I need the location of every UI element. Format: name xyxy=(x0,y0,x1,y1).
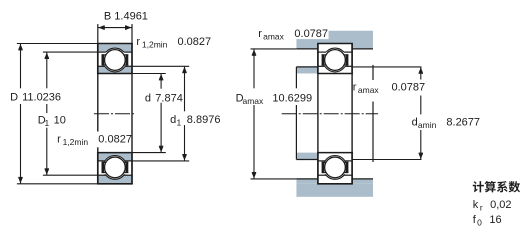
cage bracket l (right view bottom) xyxy=(322,162,325,173)
svg-text:B 1.4961: B 1.4961 xyxy=(104,10,148,22)
dimension D1 line xyxy=(46,52,48,88)
cage bracket l (right view top) xyxy=(322,54,325,65)
shoulder lines (right view top) xyxy=(318,65,325,67)
svg-text:1: 1 xyxy=(45,118,50,128)
svg-text:D: D xyxy=(10,92,18,104)
heading: calculation factors (Chinese) xyxy=(473,181,484,192)
white box behind 0.0787 top label xyxy=(292,28,329,39)
housing shoulder bottom-right (right view) xyxy=(352,179,373,184)
outer ring band (left view bottom) xyxy=(98,175,132,184)
svg-text:amax: amax xyxy=(243,96,265,106)
side edges (right view top) xyxy=(317,43,319,74)
cage bracket r (left view top) xyxy=(126,54,129,65)
svg-text:8.2677: 8.2677 xyxy=(446,117,480,129)
svg-text:amax: amax xyxy=(263,32,285,42)
svg-text:8.8976: 8.8976 xyxy=(187,114,221,126)
shoulder lines (left view bottom) xyxy=(98,160,105,162)
svg-text:0.0827: 0.0827 xyxy=(178,36,212,48)
dimension d line xyxy=(160,74,162,89)
housing shoulder top-right (right view) xyxy=(352,44,373,49)
svg-text:0: 0 xyxy=(477,218,482,228)
svg-text:0.0827: 0.0827 xyxy=(98,133,132,145)
housing shoulder bottom-left (right view) xyxy=(296,179,318,184)
svg-text:10.6299: 10.6299 xyxy=(272,93,312,105)
bore line (left view top) xyxy=(97,73,133,75)
svg-text:r: r xyxy=(353,82,357,94)
land lines (left view top) xyxy=(98,51,106,53)
dimension D line xyxy=(20,44,22,89)
cage bracket r (left view bottom) xyxy=(126,162,129,173)
dimension D1 extension lines xyxy=(43,51,98,53)
housing slab bottom (right view) xyxy=(296,184,373,197)
svg-text:0.0787: 0.0787 xyxy=(392,81,426,93)
svg-text:16: 16 xyxy=(489,214,501,226)
cage bracket r (right view bottom) xyxy=(346,162,349,173)
dimension d1 line xyxy=(184,66,186,111)
raceway groove (right view top) xyxy=(323,48,347,72)
ball (left view top) xyxy=(105,50,126,71)
inner ring band (left view bottom) xyxy=(98,153,132,161)
side edges (left view top) xyxy=(97,43,99,74)
svg-text:d: d xyxy=(145,92,151,104)
raceway groove (left view top) xyxy=(103,48,127,72)
outer ring band (left view top) xyxy=(98,44,132,53)
shoulder lines (left view top) xyxy=(98,65,105,67)
bore line (right view top) xyxy=(317,73,353,75)
land lines (right view bottom) xyxy=(318,174,326,176)
OD edge line (left view bottom) xyxy=(97,183,133,185)
shaft left end edge (right view) xyxy=(295,67,297,88)
dimension B extension lines xyxy=(97,24,99,43)
ball (right view bottom) xyxy=(325,157,346,178)
svg-text:d: d xyxy=(412,117,418,129)
bore side lines (left view) xyxy=(97,74,99,132)
OD edge line (right view bottom) xyxy=(317,183,353,185)
svg-text:11.0236: 11.0236 xyxy=(22,92,61,104)
dimension da/ramax line xyxy=(420,67,422,80)
cage bracket l (left view top) xyxy=(102,54,105,65)
dimension Damax line xyxy=(253,49,255,88)
land lines (left view bottom) xyxy=(98,174,106,176)
svg-text:r: r xyxy=(57,134,61,146)
OD edge line (right view top) xyxy=(317,43,353,45)
svg-text:r: r xyxy=(258,28,262,40)
ball (left view bottom) xyxy=(105,157,126,178)
svg-text:k: k xyxy=(473,199,479,211)
shoulder lines (right view bottom) xyxy=(318,160,325,162)
inner ring band (left view top) xyxy=(98,66,132,73)
svg-text:d: d xyxy=(170,114,176,126)
cage bracket l (left view bottom) xyxy=(102,162,105,173)
dimension d extension lines xyxy=(132,73,166,75)
shaft shoulder strip bottom-left (right view) xyxy=(296,153,318,160)
cage bracket r (right view top) xyxy=(346,54,349,65)
housing slab top (right view) xyxy=(296,31,373,44)
svg-text:0.0787: 0.0787 xyxy=(294,28,328,40)
svg-text:1,2min: 1,2min xyxy=(63,137,89,147)
shaft right end edge (right view) xyxy=(372,65,374,80)
svg-text:amin: amin xyxy=(418,120,437,130)
svg-text:r: r xyxy=(136,36,140,48)
ball (right view top) xyxy=(325,50,346,71)
shaft shoulder strip top-left (right view) xyxy=(296,67,318,74)
bore line (right view bottom) xyxy=(317,152,353,154)
centerline (right view) xyxy=(282,113,378,115)
dimension Damax extension lines xyxy=(251,48,297,50)
svg-text:0,02: 0,02 xyxy=(490,199,511,211)
bore line (left view bottom) xyxy=(97,152,133,154)
svg-text:7.874: 7.874 xyxy=(155,92,183,104)
centerline (left view) xyxy=(94,113,135,115)
OD edge line (left view top) xyxy=(97,43,133,45)
dimension D extension lines xyxy=(17,43,98,45)
side edges (left view bottom) xyxy=(97,152,99,184)
svg-text:1,2min: 1,2min xyxy=(142,40,168,50)
side edges (right view bottom) xyxy=(317,152,319,184)
raceway groove (right view bottom) xyxy=(323,156,347,180)
raceway groove (left view bottom) xyxy=(103,156,127,180)
dimension d1 extension lines xyxy=(132,65,189,67)
land lines (right view top) xyxy=(318,51,326,53)
bore side lines (right view) xyxy=(317,74,319,153)
svg-text:10: 10 xyxy=(54,115,66,127)
housing shoulder top-left (right view) xyxy=(296,44,318,49)
svg-text:amax: amax xyxy=(358,85,380,95)
svg-text:1: 1 xyxy=(177,118,182,128)
dimension B line xyxy=(98,27,132,29)
dimension da extension lines xyxy=(352,66,421,68)
svg-text:r: r xyxy=(480,203,483,213)
